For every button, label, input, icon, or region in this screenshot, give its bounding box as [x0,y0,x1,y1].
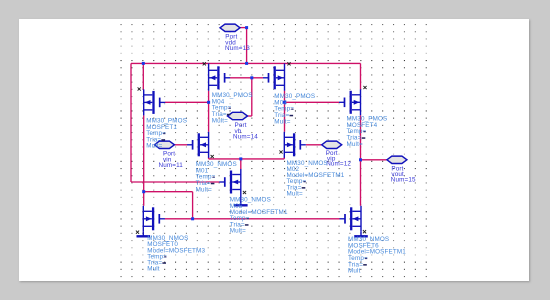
svg-text:Mult=: Mult= [274,118,290,125]
svg-text:Mult=: Mult= [347,141,363,148]
svg-text:Mult: Mult [147,266,160,273]
svg-text:Num=11: Num=11 [159,162,184,169]
svg-text:Mult: Mult [348,268,361,275]
svg-text:Mult=: Mult= [196,186,212,193]
svg-text:Mult=: Mult= [146,143,162,150]
svg-text:Num=12: Num=12 [326,161,351,168]
svg-text:Mult=: Mult= [212,117,228,124]
svg-text:Mult=: Mult= [287,190,303,197]
svg-text:Num=15: Num=15 [391,177,416,184]
svg-text:Mult=: Mult= [230,228,246,235]
svg-text:Num=13: Num=13 [225,45,250,52]
svg-text:Num=14: Num=14 [233,134,258,141]
